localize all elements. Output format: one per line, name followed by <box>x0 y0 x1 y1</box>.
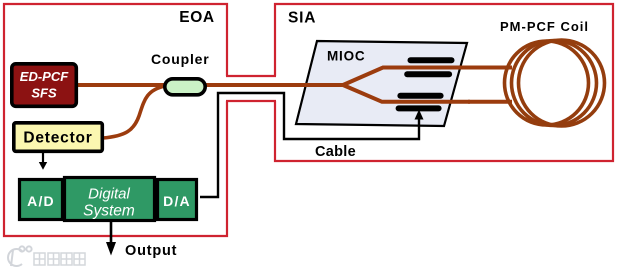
svg-text:Digital: Digital <box>88 186 130 203</box>
svg-text:SFS: SFS <box>31 86 57 101</box>
svg-text:System: System <box>83 203 135 220</box>
svg-text:EOA: EOA <box>179 9 214 26</box>
svg-text:Coupler: Coupler <box>151 51 210 67</box>
svg-text:SIA: SIA <box>288 10 316 27</box>
svg-text:A/D: A/D <box>27 193 55 209</box>
svg-text:PM-PCF Coil: PM-PCF Coil <box>500 19 589 34</box>
svg-text:Cable: Cable <box>315 144 356 160</box>
svg-text:MIOC: MIOC <box>327 48 365 63</box>
svg-text:Detector: Detector <box>23 129 92 146</box>
svg-text:ED-PCF: ED-PCF <box>20 69 69 84</box>
svg-text:D/A: D/A <box>163 193 191 209</box>
svg-text:Output: Output <box>125 243 177 259</box>
